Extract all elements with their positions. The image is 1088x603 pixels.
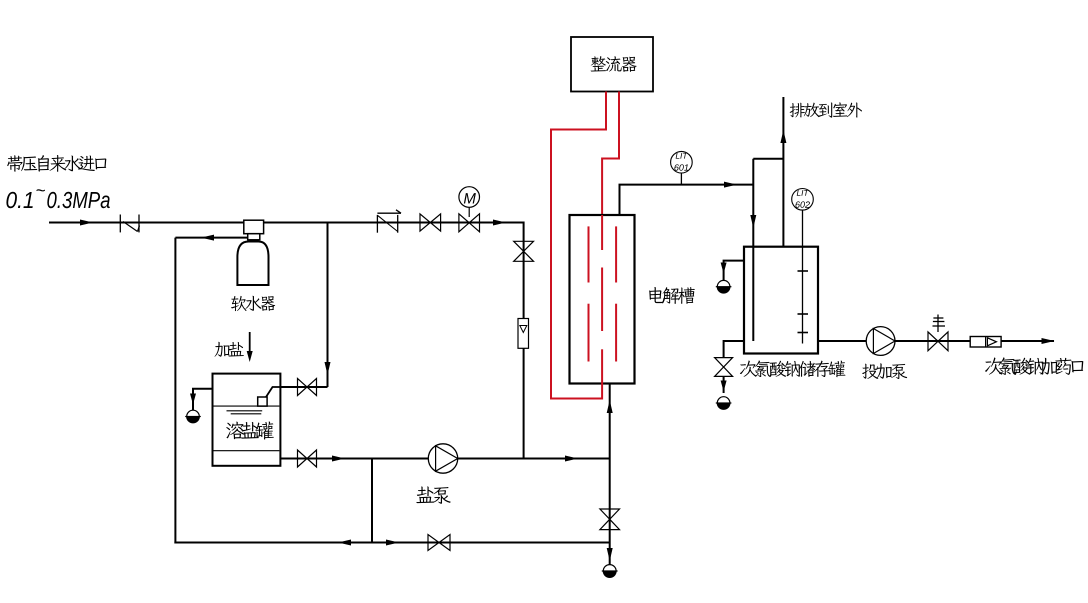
wire: softener drain header (175, 237, 247, 239)
vessel: electrolysis cell (570, 215, 635, 384)
valve V5: vertical valve on downcomer (514, 241, 534, 261)
valve V8: bottom drain gate valve (428, 535, 450, 551)
valve XV1: inlet check valve (119, 215, 121, 233)
wire: tank inlet dip pipe (752, 159, 754, 341)
vessel: softener neck (248, 234, 260, 240)
instrument FI: rotameter flow indicator (518, 319, 529, 349)
label: text: 加盐 (215, 342, 244, 357)
arrow: salt charging (249, 332, 251, 351)
wire: float valve connection (266, 387, 281, 397)
wire: bottom drain line (174, 542, 609, 544)
valve V10: tank drain valve (715, 358, 733, 377)
valve V3: gate valve on water line (420, 214, 441, 231)
arrow: brine flow 1 (332, 456, 345, 462)
component: float valve body (258, 397, 267, 406)
wire: tank upper partition (214, 405, 280, 407)
drain F2: overflow funnel (717, 280, 730, 293)
valve V11: back-pressure valve (928, 332, 948, 351)
arrow: water to electrolyser branch (493, 220, 506, 226)
component U1: rectifier (571, 37, 653, 92)
arrow: vent to outside (780, 130, 786, 143)
instrument LIT601: level transmitter (680, 173, 682, 185)
wire: water branch downcomer (523, 222, 525, 459)
wire: main water line (49, 222, 524, 224)
arrow: feed up into electrolyser (607, 400, 613, 413)
valve V7: salt tank outlet valve (298, 450, 317, 467)
arrow: water to salt tank (325, 362, 331, 375)
label: text: 带压自来水进口 (7, 155, 106, 172)
wire: float valve feed line (280, 386, 327, 388)
pump P1: salt pump (428, 444, 457, 473)
label: text: 电解槽 (649, 287, 695, 304)
valve V6: salt-tank inlet valve (298, 379, 317, 396)
label: text: 溶盐罐 (226, 421, 274, 439)
vessel: softener control head (244, 220, 264, 234)
wire: tank overflow (724, 261, 744, 280)
wire: vent connector (753, 158, 783, 160)
arrow: overflow to drain (190, 394, 196, 405)
electrode: centre top (601, 215, 603, 250)
electrode: left pair (588, 226, 590, 282)
electrode: right pair (615, 226, 617, 282)
label: text: 盐泵 (416, 486, 450, 503)
arrow: product down into tank (750, 215, 756, 228)
arrow: dosing outlet (1042, 338, 1055, 344)
arrow: drain down (721, 381, 727, 392)
vessel: softener tank body (237, 242, 268, 286)
wire: cell product outlet (620, 185, 754, 215)
arrow: softener drain flow (201, 235, 214, 241)
wire: tank drain (724, 341, 744, 358)
label: text: 次氯酸钠加药口 (985, 357, 1083, 375)
wire: electrolyser feed riser (609, 384, 611, 565)
electrode: centre middle (601, 268, 603, 332)
pump P2: dosing pump (866, 327, 895, 356)
wire: left drain downcomer (174, 238, 176, 544)
instrument M: motor actuator (459, 187, 480, 208)
component: injection fitting (970, 337, 1001, 348)
arrow: overflow down (721, 263, 727, 274)
drain F1: overflow funnel (187, 410, 200, 423)
wire: tank lower partition (214, 450, 280, 452)
label: text: 次氯酸钠储存罐 (740, 360, 846, 377)
vessel: salt dissolving tank (213, 374, 281, 466)
arrow: product to tank (724, 182, 737, 188)
wire: dosing discharge line (895, 340, 1054, 342)
wire: dilution water branch riser (327, 223, 329, 388)
arrow: bottom drain to left (338, 540, 351, 546)
valve V4: motor operated valve (459, 214, 480, 232)
arrow: to floor drain 4 (607, 548, 613, 561)
wire: brine suction line (280, 458, 609, 460)
valve V9: electrolyser drain valve (600, 509, 620, 530)
vessel: hypochlorite storage tank (744, 247, 818, 354)
label: text: 投加泵 (862, 363, 907, 379)
arrow: brine flow 2 (565, 456, 578, 462)
label: text: 软水器 (231, 296, 275, 311)
wire: DC negative lead (551, 92, 606, 399)
wire: DC positive lead (602, 92, 619, 216)
arrow: bottom drain to right (386, 540, 399, 546)
wire: salt tank overflow (193, 389, 213, 410)
label: text: 排放到室外 (790, 102, 862, 117)
valve XV2: check valve (flap) (376, 215, 378, 233)
arrow: main inlet flow (80, 220, 93, 226)
wire: tank outlet to dosing pump (818, 340, 866, 342)
mark: brine level lines (227, 410, 263, 412)
label: text: 整流器 (591, 56, 637, 72)
text: 0.1~0.3MPa (6, 192, 32, 208)
wire: drain tee drop (371, 459, 373, 543)
instrument LIT602: tank level transmitter (802, 210, 804, 344)
drain F3: drain funnel (717, 397, 730, 410)
electrode: centre bottom (601, 349, 603, 399)
drain F4: floor drain funnel (603, 565, 616, 578)
wire: vent riser (782, 97, 784, 247)
